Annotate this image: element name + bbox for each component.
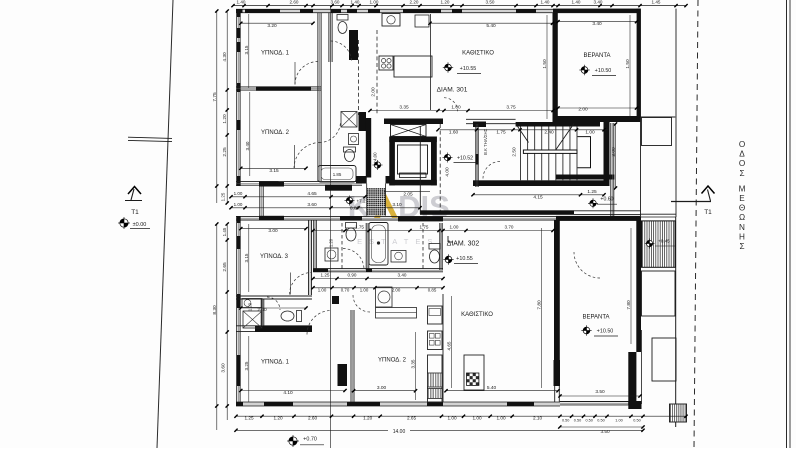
inner dim 3.40 bedroom2 vertical <box>249 92 251 176</box>
dim 7.80 living lower vertical <box>541 228 543 388</box>
elevation marker +10.55 lower <box>443 254 453 264</box>
bedroom divider wall lower <box>350 310 352 406</box>
svg-text:14.00: 14.00 <box>393 429 406 435</box>
wc divider lower <box>260 299 262 326</box>
svg-text:2.00: 2.00 <box>578 107 588 113</box>
svg-text:Β.Κ ΤΗΛ/ΣΗΣ: Β.Κ ΤΗΛ/ΣΗΣ <box>483 128 488 155</box>
bathtub lower <box>369 223 388 266</box>
inner dim 3.15 bedroom3 vertical <box>248 224 250 292</box>
svg-text:2.10: 2.10 <box>533 416 543 421</box>
light well checker block <box>367 188 386 216</box>
svg-text:ΚΑΘΙΣΤΙΚΟ: ΚΑΘΙΣΤΙΚΟ <box>462 51 494 57</box>
door arc hall lower <box>574 252 600 278</box>
svg-text:8.30: 8.30 <box>212 305 218 315</box>
stair core right wall <box>604 122 610 186</box>
svg-text:2.00: 2.00 <box>371 87 377 97</box>
toilet wc left lower <box>281 311 294 321</box>
apartment label 302 <box>447 236 449 242</box>
kitchen living divider line <box>430 14 432 110</box>
stove grid upper <box>379 56 393 70</box>
dim 3.40 veranda upper <box>558 21 637 23</box>
dim 5.40 living lower <box>446 390 558 392</box>
bottom dim row 3.50 <box>560 426 643 428</box>
elevation marker +0.70 <box>287 435 299 447</box>
svg-text:7.80: 7.80 <box>537 300 543 310</box>
svg-text:3.60: 3.60 <box>221 363 227 373</box>
kitchen dashed closet lines <box>358 40 360 115</box>
svg-text:2.40: 2.40 <box>544 130 554 136</box>
corridor bottom wall middle <box>420 210 574 215</box>
svg-text:3.60: 3.60 <box>331 0 340 4</box>
svg-text:1.20: 1.20 <box>222 114 228 124</box>
svg-text:Σ: Σ <box>739 242 744 251</box>
svg-text:3.40: 3.40 <box>398 273 407 278</box>
svg-text:3.40: 3.40 <box>245 141 250 150</box>
svg-text:2.20: 2.20 <box>410 0 419 4</box>
svg-text:Ω: Ω <box>739 213 745 222</box>
svg-text:1.20: 1.20 <box>329 238 334 247</box>
svg-text:ΥΠΝΟΔ. 1: ΥΠΝΟΔ. 1 <box>261 360 290 366</box>
svg-text:ΚΑΘΙΣΤΙΚΟ: ΚΑΘΙΣΤΙΚΟ <box>461 312 493 318</box>
svg-text:2.60: 2.60 <box>308 416 318 421</box>
svg-text:2.25: 2.25 <box>222 147 228 157</box>
svg-text:+0.60: +0.60 <box>600 197 613 203</box>
svg-text:1.00: 1.00 <box>472 416 482 421</box>
svg-text:3.00: 3.00 <box>611 147 617 157</box>
gap band wall stub left <box>259 186 261 216</box>
svg-text:1.25: 1.25 <box>587 189 597 195</box>
elevation marker +10.52 <box>443 153 453 163</box>
lower veranda bottom wall <box>560 401 641 403</box>
svg-text:3.20: 3.20 <box>267 23 277 29</box>
svg-text:+0.70: +0.70 <box>303 437 317 443</box>
dim row gap band 1 <box>230 196 365 198</box>
dim 3.15 bedroom2 bottom <box>241 167 306 169</box>
svg-text:3.40: 3.40 <box>592 21 602 27</box>
lower veranda left wall <box>554 220 560 360</box>
street edge dashed line <box>694 0 698 448</box>
elevation marker +0.60 <box>588 198 598 208</box>
wc2 toilet lower <box>430 250 440 263</box>
svg-text:1.40: 1.40 <box>541 0 550 4</box>
svg-text:3.75: 3.75 <box>506 105 516 111</box>
svg-text:+4.00: +4.00 <box>373 152 378 164</box>
svg-text:Δ: Δ <box>739 150 745 159</box>
svg-text:4.00: 4.00 <box>445 167 451 177</box>
stair core bottom wall <box>473 180 608 186</box>
svg-text:1.00: 1.00 <box>318 288 327 293</box>
upper apartment top outer wall <box>236 8 641 10</box>
bath dashed door line lower <box>341 223 343 270</box>
wall between bedroom1 and bedroom2 <box>236 86 256 88</box>
svg-text:T1: T1 <box>131 209 139 216</box>
svg-text:4.65: 4.65 <box>447 341 452 350</box>
svg-text:1.00: 1.00 <box>360 288 369 293</box>
site boundary line left <box>157 0 173 448</box>
svg-text:Μ: Μ <box>739 184 746 193</box>
door arc bath lower <box>343 249 364 270</box>
svg-text:1.45: 1.45 <box>652 0 661 4</box>
svg-text:2.65: 2.65 <box>222 262 228 272</box>
svg-text:4.30: 4.30 <box>222 52 228 62</box>
svg-text:+10.52: +10.52 <box>457 156 473 162</box>
dim row under kitchen 3.35 1.00 3.75 <box>370 110 553 112</box>
dim 3.50 veranda lower <box>560 395 640 397</box>
svg-text:2.60: 2.60 <box>290 0 299 4</box>
bathtub upper bath <box>318 166 356 183</box>
dim row lower top 1.75 1.75 1.00 3.70 <box>313 230 553 232</box>
svg-text:1.00: 1.00 <box>450 225 459 230</box>
svg-text:3.50: 3.50 <box>595 389 605 395</box>
dim 3.35 vertical <box>415 332 417 400</box>
svg-text:Η: Η <box>739 232 745 241</box>
dim 1.50 veranda left <box>546 15 548 119</box>
svg-text:3.00: 3.00 <box>377 385 387 391</box>
washbasin wc left lower <box>242 299 262 308</box>
svg-text:3.15: 3.15 <box>269 168 279 174</box>
closet bedroom2 lower <box>376 308 417 319</box>
crossed box upper bath <box>341 112 357 128</box>
elevation marker +0.45 <box>645 239 655 249</box>
svg-text:1.75: 1.75 <box>355 225 364 230</box>
top wall black over wc2 <box>398 217 443 222</box>
dim 1.50 veranda right <box>629 15 631 119</box>
staircase rail <box>523 150 577 153</box>
shower box lower <box>243 311 262 328</box>
svg-text:1.40: 1.40 <box>572 0 581 4</box>
right balcony strip outline upper <box>640 9 642 217</box>
living annex bottom wall <box>556 175 615 180</box>
svg-text:ΔΙΑΜ. 301: ΔΙΑΜ. 301 <box>437 87 468 94</box>
svg-text:Ο: Ο <box>739 140 745 149</box>
wc toilet upper <box>338 22 347 34</box>
svg-text:3.70: 3.70 <box>505 225 514 230</box>
door arc bedroom1 lower <box>307 311 331 335</box>
wc2 dashed door line <box>422 223 424 270</box>
svg-text:5.40: 5.40 <box>486 23 496 29</box>
elevator shaft <box>389 137 437 186</box>
T1 marker left <box>128 187 141 195</box>
balcony window box right <box>642 118 672 146</box>
bath room divider wall lower <box>365 223 367 270</box>
svg-text:1.25: 1.25 <box>244 416 254 421</box>
svg-text:2.00: 2.00 <box>392 288 401 293</box>
svg-text:1.50: 1.50 <box>625 59 631 69</box>
annex right wall <box>610 123 612 216</box>
svg-text:1.00: 1.00 <box>451 105 461 111</box>
light well side lines <box>367 184 386 216</box>
upper veranda right wall <box>637 9 641 122</box>
svg-text:1.20: 1.20 <box>248 302 253 311</box>
svg-text:3.15: 3.15 <box>244 45 249 54</box>
door arc bedroom2 upper <box>294 143 320 169</box>
svg-text:2.60: 2.60 <box>257 307 267 313</box>
svg-text:Ο: Ο <box>739 159 745 168</box>
svg-text:3.40: 3.40 <box>594 0 603 4</box>
dim 2.60 wc lower <box>241 307 306 309</box>
svg-text:ΥΠΝΟΔ. 2: ΥΠΝΟΔ. 2 <box>261 130 290 136</box>
wc black wall column <box>349 30 358 60</box>
planter boxes right lower <box>642 271 676 316</box>
svg-text:3.00: 3.00 <box>268 228 278 234</box>
svg-text:ΔΙΑΜ. 302: ΔΙΑΜ. 302 <box>447 241 480 248</box>
hatched box bottom right <box>670 404 687 422</box>
lower apartment left outer wall <box>236 216 238 406</box>
kitchen sink lower <box>428 373 443 387</box>
svg-text:+0.45: +0.45 <box>658 239 670 244</box>
toilet upper bath <box>345 150 355 162</box>
staircase break lines <box>516 124 529 143</box>
wc row top wall lower <box>236 295 312 297</box>
svg-text:0.50: 0.50 <box>562 418 569 422</box>
dim line core top <box>440 129 608 131</box>
svg-text:4.15: 4.15 <box>533 195 543 201</box>
dim 7.80 veranda lower vertical <box>630 228 632 344</box>
upper apartment bottom wall <box>236 181 362 183</box>
light well top wall <box>356 176 367 184</box>
svg-text:1.25: 1.25 <box>221 192 226 201</box>
svg-text:1.60: 1.60 <box>449 130 459 136</box>
svg-text:Σ: Σ <box>739 169 744 178</box>
inner dim 3.25 lower bedroom vertical <box>248 336 250 402</box>
svg-text:T1: T1 <box>704 209 712 216</box>
wc2 right wall lower <box>439 223 441 270</box>
bottom dim row 1 <box>236 415 686 417</box>
stair core left wall <box>475 124 477 187</box>
svg-text:ΒΕΡΑΝΤΑ: ΒΕΡΑΝΤΑ <box>582 315 609 321</box>
svg-text:1.20: 1.20 <box>363 416 373 421</box>
lower veranda right wall <box>636 217 641 352</box>
kitchen dark box lower <box>428 389 443 399</box>
kitchen island lower <box>464 355 484 390</box>
svg-text:ΒΕΡΑΝΤΑ: ΒΕΡΑΝΤΑ <box>583 53 610 59</box>
washbasin lower bath <box>391 251 406 263</box>
svg-text:1.40: 1.40 <box>237 0 246 4</box>
boundary stub lines <box>128 137 172 138</box>
door arc bedroom3 lower <box>290 273 312 295</box>
left inner dim column lower <box>226 224 228 420</box>
svg-text:7.80: 7.80 <box>626 300 632 310</box>
svg-text:1.75: 1.75 <box>496 130 506 136</box>
svg-text:2.50: 2.50 <box>512 147 518 157</box>
elevation marker +4.00 light well <box>373 160 383 170</box>
elevation marker +10.50 lower veranda <box>581 325 591 335</box>
svg-text:3.35: 3.35 <box>399 105 409 111</box>
kitchen island upper <box>394 56 432 77</box>
dim 4.10 bedroom1 lower <box>241 390 345 392</box>
svg-text:1.20: 1.20 <box>441 0 450 4</box>
left outer dim column upper <box>216 11 218 203</box>
T1 marker right <box>671 201 711 203</box>
svg-text:Ε: Ε <box>739 194 745 203</box>
svg-text:ΥΠΝΟΔ. 2: ΥΠΝΟΔ. 2 <box>378 358 407 364</box>
core lobby dashed wall <box>439 124 441 216</box>
elevation marker +10.55 upper <box>443 62 453 72</box>
door arc bath upper <box>320 123 341 142</box>
elevation marker +7.2 <box>345 196 355 206</box>
door jamb block hall lower <box>332 296 339 304</box>
left outer dim column lower <box>216 224 218 430</box>
door arc bedroom2 lower <box>353 295 370 312</box>
svg-text:+10.55: +10.55 <box>460 66 477 72</box>
svg-text:0.50: 0.50 <box>586 418 593 422</box>
svg-text:1.50: 1.50 <box>542 59 548 69</box>
svg-text:0.50: 0.50 <box>633 418 640 422</box>
svg-text:3.10: 3.10 <box>392 202 402 208</box>
inner dim 3.15 bedroom1 vertical <box>248 14 250 88</box>
bath cluster bottom wall <box>313 268 443 270</box>
bath cluster left wall lower <box>313 220 315 270</box>
svg-text:ΥΠΝΟΔ. 3: ΥΠΝΟΔ. 3 <box>260 254 289 260</box>
dim 3.00 bedroom2 lower <box>354 390 416 392</box>
door arc wc left lower <box>267 297 280 310</box>
benchmark ±0.00 left <box>118 217 130 229</box>
dim row gap band 2 <box>230 207 420 209</box>
bedroom right wall upper <box>317 13 319 181</box>
left inner dim column upper <box>226 11 228 203</box>
upper veranda bottom wall <box>553 116 641 122</box>
dim 3.00 vertical right of core <box>615 124 617 188</box>
street right border lines <box>786 0 788 448</box>
svg-text:Θ: Θ <box>739 204 745 213</box>
svg-text:+10.50: +10.50 <box>597 329 614 335</box>
svg-text:1.00: 1.00 <box>447 416 457 421</box>
upper apartment left outer wall <box>236 11 238 186</box>
door arc stair lobby <box>483 162 500 179</box>
hall fixture circle <box>376 287 393 307</box>
svg-text:7.75: 7.75 <box>212 92 218 102</box>
staircase landing handrail loop <box>578 137 591 168</box>
svg-text:+7.2: +7.2 <box>356 199 366 204</box>
dim 5.40 living upper <box>430 22 553 24</box>
svg-text:3.60: 3.60 <box>307 202 317 208</box>
svg-text:4.65: 4.65 <box>307 191 317 197</box>
lower apartment top wall right section <box>556 216 641 221</box>
svg-text:1.40: 1.40 <box>351 0 360 4</box>
door arc wc upper <box>331 41 352 62</box>
svg-text:0.80: 0.80 <box>350 205 359 210</box>
shaft walls left of elevator <box>359 112 367 131</box>
washbasin small room lower <box>325 248 338 261</box>
dim 3.20 bedroom1 <box>241 22 313 24</box>
svg-text:1.75: 1.75 <box>420 225 429 230</box>
svg-text:1.00: 1.00 <box>585 130 595 136</box>
svg-text:1.25: 1.25 <box>321 273 330 278</box>
balcony hatch strip lower <box>642 221 676 267</box>
svg-text:5.40: 5.40 <box>487 385 497 391</box>
svg-text:0.90: 0.90 <box>348 273 357 278</box>
svg-text:2.05: 2.05 <box>403 191 413 197</box>
dim 4.65 kitchen vertical <box>451 296 453 388</box>
dim line core bottom 4.15 <box>473 194 604 196</box>
dim rows bath lower 2 <box>313 287 443 289</box>
svg-text:+10.50: +10.50 <box>595 68 612 74</box>
corridor left wall <box>419 126 421 214</box>
dim row 2.05 <box>384 191 430 193</box>
svg-text:ΥΠΝΟΔ. 1: ΥΠΝΟΔ. 1 <box>261 51 290 57</box>
svg-text:1.45: 1.45 <box>222 227 227 236</box>
svg-text:+10.55: +10.55 <box>456 256 473 262</box>
svg-text:Ν: Ν <box>739 223 745 232</box>
staircase treads <box>521 127 577 181</box>
dim 3.00 bedroom3 <box>241 228 306 230</box>
svg-text:0.50: 0.50 <box>574 418 581 422</box>
bottom dim row 14.00 <box>236 429 643 431</box>
svg-text:±0.00: ±0.00 <box>133 222 147 228</box>
svg-text:1.85: 1.85 <box>333 172 342 177</box>
top dimension row <box>233 5 686 7</box>
svg-text:1.00: 1.00 <box>234 191 243 196</box>
elevation marker +10.50 upper veranda <box>579 65 589 75</box>
door arc living upper <box>444 98 458 112</box>
toilet lower bath <box>346 228 356 241</box>
hall wall upper <box>328 13 330 62</box>
svg-text:3.25: 3.25 <box>244 361 249 370</box>
wc row bottom wall lower <box>236 325 312 327</box>
right outer edge line lower <box>675 217 677 427</box>
kitchen counter boxes upper <box>415 15 429 27</box>
svg-text:0.50: 0.50 <box>597 418 604 422</box>
svg-text:3.50: 3.50 <box>486 0 495 4</box>
wardrobe block lower <box>338 364 348 386</box>
dimension reference line x330 <box>330 6 332 448</box>
dim 2.00 veranda bottom <box>558 107 637 109</box>
svg-text:3.35: 3.35 <box>411 359 416 368</box>
upper veranda top wall <box>553 9 641 13</box>
washing machine upper <box>382 14 400 27</box>
svg-text:3.50: 3.50 <box>600 429 610 434</box>
svg-text:1.00: 1.00 <box>370 0 379 4</box>
svg-text:0.70: 0.70 <box>341 288 350 293</box>
living veranda separation wall upper <box>553 13 558 122</box>
kitchen cabinets lower <box>428 306 443 324</box>
bedroom3 right wall <box>308 220 310 295</box>
svg-text:1.00: 1.00 <box>234 202 243 207</box>
svg-text:3.15: 3.15 <box>244 253 249 262</box>
dim rows bath lower 1 <box>313 278 443 280</box>
door arc hall upper <box>295 62 318 85</box>
sink upper bath <box>349 134 359 145</box>
svg-text:1.00: 1.00 <box>496 416 506 421</box>
kitchen wall line lower <box>442 294 444 402</box>
elevator vent box with cross <box>391 125 427 137</box>
lower apartment bottom wall <box>236 401 560 403</box>
stair core top wall <box>384 119 443 125</box>
lower apartment top wall <box>236 215 556 217</box>
svg-text:0.85: 0.85 <box>428 288 437 293</box>
svg-text:1.20: 1.20 <box>273 416 283 421</box>
svg-text:4.10: 4.10 <box>283 390 293 396</box>
svg-text:1.00: 1.00 <box>615 418 622 422</box>
svg-text:2.65: 2.65 <box>407 416 417 421</box>
